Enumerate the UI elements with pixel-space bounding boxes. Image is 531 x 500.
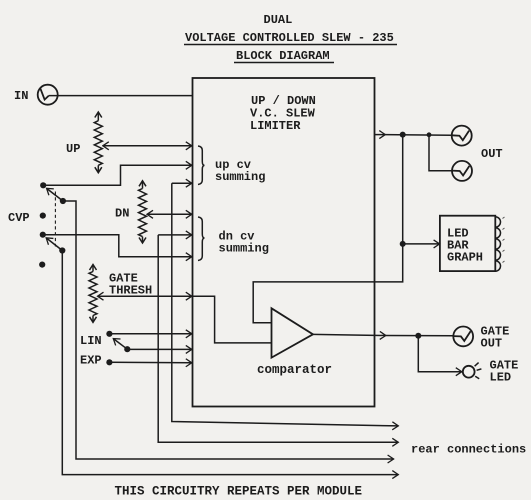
dashed gang link between switch arms [54,192,56,247]
node: LED branch junction [400,241,406,247]
svg-text:DN: DN [115,207,129,221]
wire: block output to OUT jack 1 [375,134,386,136]
svg-text:LED: LED [490,371,512,385]
svg-text:OUT: OUT [481,147,503,161]
node: branch corner to OUT jack 2 [427,132,432,137]
label GATE THRESH [109,272,152,298]
title line 2: VOLTAGE CONTROLLED SLEW - 235 (underlined) [184,31,397,45]
wire: feedback from slew out node down-left to comparator plus input [253,135,403,323]
svg-text:CVP: CVP [8,211,30,225]
svg-text:LIN: LIN [80,334,102,348]
potentiometer DN (R2) [139,181,192,243]
jack J2 OUT upper [452,126,472,146]
jack J4 GATE OUT [453,327,473,347]
wire: dot3 to dn cv summing input (via riser x=118.8) [43,235,192,257]
wire: branch down to gate LED [418,336,462,372]
LED 4 on bar graph [495,250,500,260]
wire: riser 2 down to rear connection 2 [158,235,398,442]
node: gate junction [415,333,421,339]
wire: IN jack to block [49,95,193,97]
wire: switch S1b arm down to rear connection 4 [62,251,398,475]
wire: rear riser 1 to up cv summing input [172,182,192,184]
svg-text:THRESH: THRESH [109,284,152,298]
node: switch contact dot 1 (to up cv) [40,182,46,188]
wire: rear riser 2 to dn cv summing input [158,234,192,236]
svg-text:summing: summing [215,170,265,184]
LED 1 on bar graph [495,217,500,227]
wire: riser 1 down to rear connection 1 [172,183,398,426]
LED 2 on bar graph [495,228,500,238]
label up cv summing [215,158,265,184]
switch S1a arm (pivot to dot1) [47,188,66,204]
switch S2 common + arm toward LIN [113,339,130,353]
op-amp U2 comparator [257,308,332,377]
label GATE OUT [481,325,510,351]
svg-text:LIMITER: LIMITER [250,119,301,133]
svg-text:BLOCK DIAGRAM: BLOCK DIAGRAM [236,49,330,63]
wire: comparator output to gate node (exits block) [313,334,386,335]
svg-text:GRAPH: GRAPH [447,251,483,265]
main block U1: UP/DOWN V.C. SLEW LIMITER [193,78,375,407]
wire: branch down to OUT jack 2 [429,135,452,171]
title line 3: BLOCK DIAGRAM (underlined) [234,49,334,63]
LED 3 on bar graph [495,239,500,249]
brace: dn cv summing group [198,217,205,261]
node: switch contact dot 2 (CVP) [40,213,46,219]
svg-text:IN: IN [14,89,28,103]
LED 5 on bar graph [495,261,500,271]
potentiometer UP (R1) [94,112,192,173]
wire: LIN dot to block [109,333,191,335]
svg-text:DUAL: DUAL [264,13,293,27]
wire: S2 common to block [127,348,192,350]
jack J1 IN [38,85,58,105]
node LIN dot [106,331,112,337]
svg-text:summing: summing [219,242,269,256]
label GATE LED [490,359,519,385]
brace: up cv summing group [198,146,205,185]
svg-text:VOLTAGE CONTROLLED SLEW - 235: VOLTAGE CONTROLLED SLEW - 235 [185,31,394,45]
svg-text:rear connections: rear connections [411,443,526,457]
node EXP dot [106,359,112,365]
switch S1b arm (pivot to dot3) [46,238,65,254]
wire: junction to LED bar graph [403,243,440,245]
label dn cv summing [219,230,269,256]
LED BAR GRAPH box [440,216,495,271]
node: switch contact dot 3 (to dn cv) [40,232,46,238]
wire: EXP dot to block [109,361,191,364]
svg-text:OUT: OUT [481,337,503,351]
node: output junction [400,132,406,138]
jack J3 OUT lower [452,161,472,181]
wire: dot1 to up cv summing input (via riser x=120.5) [43,165,192,185]
svg-text:EXP: EXP [80,354,102,368]
wire: switch S1a arm down to rear connection 3 [63,201,394,459]
LED D1 gate indicator [463,363,482,379]
svg-text:THIS CIRCUITRY REPEATS PER MOD: THIS CIRCUITRY REPEATS PER MODULE [115,485,363,499]
potentiometer GATE THRESH (R3) [89,265,192,323]
svg-text:UP: UP [66,142,80,156]
node: switch contact dot 4 [39,262,45,268]
svg-text:comparator: comparator [257,363,332,377]
wire: gate thresh continues inside block to comparator minus input [193,296,272,343]
